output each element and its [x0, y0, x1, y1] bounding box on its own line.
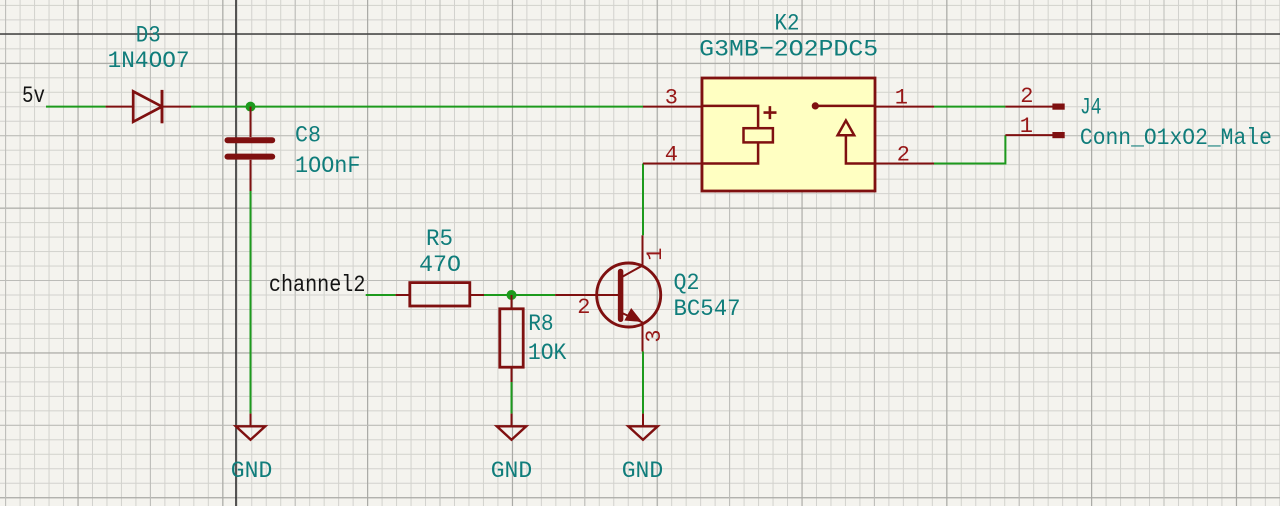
connector J4 pin 1	[1005, 133, 1064, 138]
svg-text:R5: R5	[426, 226, 453, 253]
K2 output line	[817, 105, 875, 108]
capacitor C8	[228, 107, 273, 191]
svg-text:1: 1	[1020, 114, 1033, 139]
svg-text:1OK: 1OK	[528, 340, 567, 367]
junction node R8	[507, 290, 517, 300]
K2 arrow branch	[838, 121, 875, 164]
K2 plus sign	[764, 106, 777, 119]
junction node	[246, 102, 256, 112]
svg-text:G3MB−2O2PDC5: G3MB−2O2PDC5	[699, 37, 878, 64]
wire D3 to K2 pin 3	[191, 106, 643, 108]
resistor R8	[500, 295, 523, 382]
svg-text:BC547: BC547	[674, 296, 741, 323]
svg-text:channel2: channel2	[269, 272, 366, 299]
svg-text:R8: R8	[528, 311, 554, 338]
resistor R5	[396, 283, 484, 306]
power GND under R8	[497, 414, 526, 440]
K2 output contact dot	[812, 102, 819, 109]
K2 pin 1 stub	[875, 106, 934, 108]
svg-text:K2: K2	[775, 11, 800, 38]
dark axis line vertical	[235, 0, 237, 506]
svg-text:GND: GND	[491, 458, 533, 485]
svg-text:Q2: Q2	[674, 270, 700, 297]
wire R8 to GND	[511, 382, 513, 414]
wire channel2 to R5	[366, 294, 396, 296]
svg-text:GND: GND	[622, 458, 664, 485]
wire C8 to GND	[250, 191, 252, 414]
svg-text:47O: 47O	[419, 252, 461, 279]
K2 pin 2 stub	[875, 163, 934, 165]
K2 pin 3 stub	[643, 106, 702, 108]
svg-text:2: 2	[1020, 84, 1033, 109]
dark axis line horizontal	[0, 33, 1280, 35]
svg-text:D3: D3	[136, 23, 161, 50]
transistor Q2	[555, 235, 661, 351]
wire 5v to D3	[46, 106, 106, 108]
K2 internal coil	[702, 106, 773, 164]
wire K2 pin2 to J4 pin1	[934, 135, 1005, 163]
svg-text:2: 2	[897, 143, 910, 168]
diode D3	[106, 90, 191, 123]
svg-text:4: 4	[665, 143, 678, 168]
svg-text:1N4OO7: 1N4OO7	[108, 48, 190, 75]
svg-text:1: 1	[643, 248, 668, 261]
wire R5 to Q2 base	[484, 294, 555, 296]
wire K2 pin1 to J4 pin2	[934, 106, 1005, 108]
svg-text:2: 2	[577, 295, 590, 320]
svg-text:C8: C8	[295, 123, 321, 150]
svg-text:5v: 5v	[22, 83, 45, 110]
svg-text:1OOnF: 1OOnF	[295, 153, 361, 180]
power GND under Q2	[628, 414, 657, 440]
svg-text:GND: GND	[231, 458, 272, 485]
K2 pin 4 stub	[643, 163, 702, 165]
relay K2 body	[702, 78, 875, 191]
svg-text:3: 3	[665, 86, 678, 111]
svg-text:Conn_O1xO2_Male: Conn_O1xO2_Male	[1080, 125, 1272, 152]
svg-text:1: 1	[895, 86, 908, 111]
connector J4 pin 2	[1005, 104, 1064, 109]
svg-text:J4: J4	[1080, 95, 1102, 122]
wire K2 pin4 to Q2 collector	[642, 164, 644, 236]
power GND under C8	[236, 414, 265, 440]
wire Q2 emitter to GND	[642, 352, 644, 414]
svg-text:3: 3	[642, 329, 667, 342]
